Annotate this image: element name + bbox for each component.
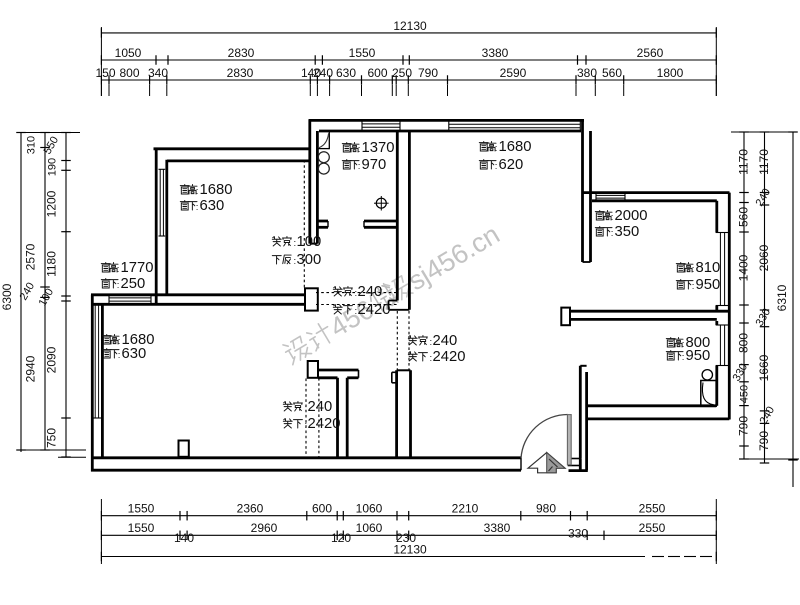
wall top exterior (kitchen + living): [309, 120, 585, 131]
wall bottom exterior with entry opening: [91, 458, 521, 470]
partition lower-left room tab: [308, 361, 318, 378]
svg-text:330: 330: [568, 527, 588, 541]
svg-text::: :: [682, 339, 685, 350]
svg-text:340: 340: [148, 66, 168, 80]
dimension line left inner column: [22, 133, 86, 458]
svg-text:1180: 1180: [45, 251, 59, 277]
svg-text:3380: 3380: [484, 521, 511, 535]
svg-text:250: 250: [392, 66, 412, 80]
svg-text::: :: [196, 186, 199, 197]
entry arrow symbol: [528, 453, 565, 473]
svg-text:2550: 2550: [639, 502, 666, 516]
svg-text:1370: 1370: [362, 140, 395, 156]
svg-text:790: 790: [737, 416, 751, 436]
text window 810/950 top-right room right: [676, 263, 685, 273]
window W1 1200 bedroom-TL left: [159, 169, 166, 236]
svg-text::: :: [118, 336, 121, 347]
svg-text:2570: 2570: [24, 243, 38, 270]
text beam 100/300: [272, 237, 281, 246]
svg-text:450: 450: [739, 385, 751, 403]
text window 1680/630 bedroom-TL: [180, 185, 189, 195]
dimension line right overall 6310: [731, 132, 799, 487]
text beam 240/2420 lower-left: [283, 402, 292, 411]
entry door leaf: [567, 415, 571, 465]
svg-text:630: 630: [122, 346, 147, 362]
kitchen door leaf box and swing: [317, 132, 329, 150]
dimension line right middle column: [754, 132, 778, 463]
svg-text:2830: 2830: [227, 66, 254, 80]
dimension line bottom row 1: [101, 502, 716, 521]
svg-text:1200: 1200: [45, 190, 59, 217]
svg-text:12130: 12130: [393, 19, 427, 33]
svg-text:3380: 3380: [482, 46, 509, 60]
dimension line bottom overall 12130: [101, 499, 716, 564]
svg-text::: :: [692, 281, 695, 292]
window W3 2090 lower-left room left wall: [93, 305, 104, 418]
svg-text:800: 800: [119, 66, 139, 80]
toilet: [701, 370, 716, 407]
svg-text:6300: 6300: [0, 283, 14, 310]
svg-text:2420: 2420: [433, 349, 466, 365]
svg-text::: :: [692, 264, 695, 275]
svg-text:150: 150: [95, 66, 115, 80]
svg-text:1550: 1550: [128, 502, 155, 516]
svg-text:1770: 1770: [121, 260, 154, 276]
wall top-right room bottom: [570, 311, 728, 319]
svg-text:2060: 2060: [757, 244, 771, 271]
svg-text:980: 980: [536, 502, 556, 516]
svg-text:1800: 1800: [657, 66, 684, 80]
svg-text:1170: 1170: [757, 149, 771, 175]
svg-text::: :: [682, 352, 685, 363]
svg-text::: :: [117, 264, 120, 275]
svg-text::: :: [358, 144, 361, 155]
dimension line bottom row 2: [101, 521, 716, 545]
svg-text:2940: 2940: [24, 355, 38, 382]
svg-text:2590: 2590: [500, 66, 527, 80]
wall bathroom left strip / entry side: [580, 366, 586, 471]
svg-text:790: 790: [757, 431, 771, 451]
svg-text:2560: 2560: [637, 46, 664, 60]
svg-text::: :: [495, 161, 498, 172]
svg-text::: :: [611, 228, 614, 239]
svg-text:600: 600: [367, 66, 387, 80]
jamb T-bar end of bedroom-TL bottom wall: [305, 288, 318, 310]
window W4 790 kitchen top: [362, 120, 400, 131]
svg-text:2090: 2090: [45, 346, 59, 373]
svg-text:190: 190: [47, 158, 59, 176]
dimension line right inner column: [731, 132, 751, 459]
svg-text:120: 120: [331, 531, 351, 545]
svg-text:12130: 12130: [393, 543, 427, 557]
svg-text:1060: 1060: [356, 521, 383, 535]
svg-text::: :: [117, 280, 120, 291]
entry door arc: [521, 415, 568, 459]
svg-text:560: 560: [602, 66, 622, 80]
svg-text:6310: 6310: [775, 284, 789, 311]
svg-text:1550: 1550: [349, 46, 376, 60]
wall bedroom-TL bottom / step wall: [91, 295, 305, 305]
svg-text:2550: 2550: [639, 521, 666, 535]
wall kitchen bottom with door opening: [317, 221, 397, 227]
text beam 240/2420 hallway: [333, 287, 342, 296]
text window 1680/620 living room: [479, 142, 488, 152]
jamb right of entry door: [569, 459, 588, 471]
svg-text:240: 240: [358, 284, 383, 300]
kitchen circles fixture: [318, 152, 329, 174]
dimension line left middle column: [18, 133, 50, 451]
text window 1770/250 step wall: [101, 263, 110, 273]
watermark 设计456 sj456.cn: [280, 219, 504, 369]
svg-text:750: 750: [45, 428, 59, 448]
beam 240 dashed vertical lower-left: [306, 378, 319, 457]
svg-text:2830: 2830: [228, 46, 255, 60]
window W5 2590 living room top: [449, 120, 581, 132]
wall bedroom-TL left: [156, 148, 167, 306]
svg-text:790: 790: [418, 66, 438, 80]
window W2 1770 step wall: [109, 295, 151, 305]
window W7 1400 top-right room right wall: [716, 233, 730, 306]
text window 1370/970 kitchen: [342, 143, 351, 153]
svg-text:1680: 1680: [499, 139, 532, 155]
svg-text:800: 800: [737, 333, 751, 353]
dimension line left overall 6300: [0, 133, 26, 453]
svg-text:630: 630: [200, 198, 225, 214]
svg-text:1060: 1060: [356, 502, 383, 516]
beam 240 dashed vertical living-dining: [397, 311, 409, 370]
window W6 560 step wall: [596, 193, 625, 201]
floor drain symbol: [374, 196, 389, 211]
wall top-right corner vertical: [583, 120, 591, 262]
svg-text:810: 810: [696, 260, 721, 276]
beam 240 dashed horizontal hallway: [316, 293, 397, 305]
dimension line top row C: [95, 27, 716, 96]
svg-text:2000: 2000: [615, 208, 648, 224]
svg-text:560: 560: [737, 207, 751, 227]
wall bedroom-TL top: [154, 149, 312, 161]
svg-text:600: 600: [312, 502, 332, 516]
svg-text::: :: [118, 350, 121, 361]
window W8 800 bathroom right wall: [716, 325, 730, 366]
svg-text:310: 310: [26, 136, 38, 154]
svg-text:1400: 1400: [737, 254, 751, 281]
wall kitchen-living divider upper: [389, 131, 410, 310]
text window 2000/350 top-right room: [595, 211, 604, 221]
svg-text:950: 950: [686, 348, 711, 364]
svg-text:240: 240: [308, 399, 333, 415]
wall lower-left room left: [92, 295, 102, 472]
wall living-dining divider lower: [392, 370, 411, 457]
svg-text:100: 100: [297, 234, 322, 250]
svg-text:1170: 1170: [737, 149, 751, 175]
svg-text::: :: [196, 202, 199, 213]
svg-text:350: 350: [615, 224, 640, 240]
svg-text:140: 140: [174, 531, 194, 545]
partition lower-left room bar + descender: [318, 370, 359, 458]
svg-text::: :: [495, 143, 498, 154]
svg-text:2420: 2420: [358, 302, 391, 318]
svg-text:2360: 2360: [237, 502, 264, 516]
svg-text:240: 240: [433, 333, 458, 349]
wall step top-right horizontal: [583, 193, 730, 201]
svg-text:950: 950: [696, 277, 721, 293]
wall kitchen left: [310, 120, 318, 244]
pier on bottom wall: [179, 441, 189, 457]
svg-text:1660: 1660: [757, 354, 771, 381]
svg-text:2420: 2420: [308, 416, 341, 432]
svg-text::: :: [611, 212, 614, 223]
svg-text:620: 620: [499, 157, 524, 173]
svg-text:970: 970: [362, 157, 387, 173]
svg-text:1050: 1050: [115, 46, 142, 60]
text beam 240/2420 living-dining: [408, 336, 417, 345]
svg-text::: :: [358, 161, 361, 172]
svg-text:2960: 2960: [251, 521, 278, 535]
svg-text:1680: 1680: [200, 182, 233, 198]
wall right exterior: [717, 193, 730, 420]
svg-text:1550: 1550: [128, 521, 155, 535]
text window 1680/630 lower-left room: [102, 335, 111, 345]
beam 100 dashed along bedroom-TL right: [303, 160, 305, 290]
svg-text:300: 300: [297, 252, 322, 268]
dimension line top overall 12130: [101, 19, 716, 37]
svg-text:250: 250: [121, 276, 146, 292]
jamb T-bar top-right room bottom wall: [561, 308, 570, 326]
svg-text:240: 240: [313, 66, 333, 80]
svg-text:380: 380: [577, 66, 597, 80]
dimension line top row B: [101, 46, 716, 65]
svg-text:630: 630: [336, 66, 356, 80]
svg-text:2210: 2210: [452, 502, 479, 516]
wall bathroom bottom: [587, 406, 730, 419]
text window 800/950 bathroom: [666, 338, 675, 348]
